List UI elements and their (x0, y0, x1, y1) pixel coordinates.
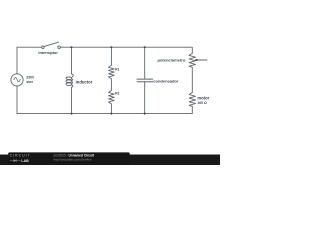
svg-text:LAB: LAB (21, 159, 29, 163)
svg-text:R1: R1 (115, 67, 119, 71)
svg-text:100 Ω: 100 Ω (197, 101, 207, 105)
svg-text:interruptor: interruptor (38, 51, 58, 55)
svg-text:http://circuitlab.com/c/bm4rw: http://circuitlab.com/c/bm4rw (53, 158, 92, 162)
svg-text:CIRCUIT: CIRCUIT (10, 153, 31, 157)
svg-text:230V: 230V (26, 76, 35, 80)
svg-text:potenciometro: potenciometro (158, 57, 186, 62)
svg-text:motor: motor (197, 95, 209, 100)
svg-text:condensador: condensador (153, 79, 179, 84)
svg-text:R2: R2 (115, 91, 119, 95)
svg-text:sine: sine (26, 80, 33, 84)
svg-text:inductor: inductor (76, 79, 93, 84)
